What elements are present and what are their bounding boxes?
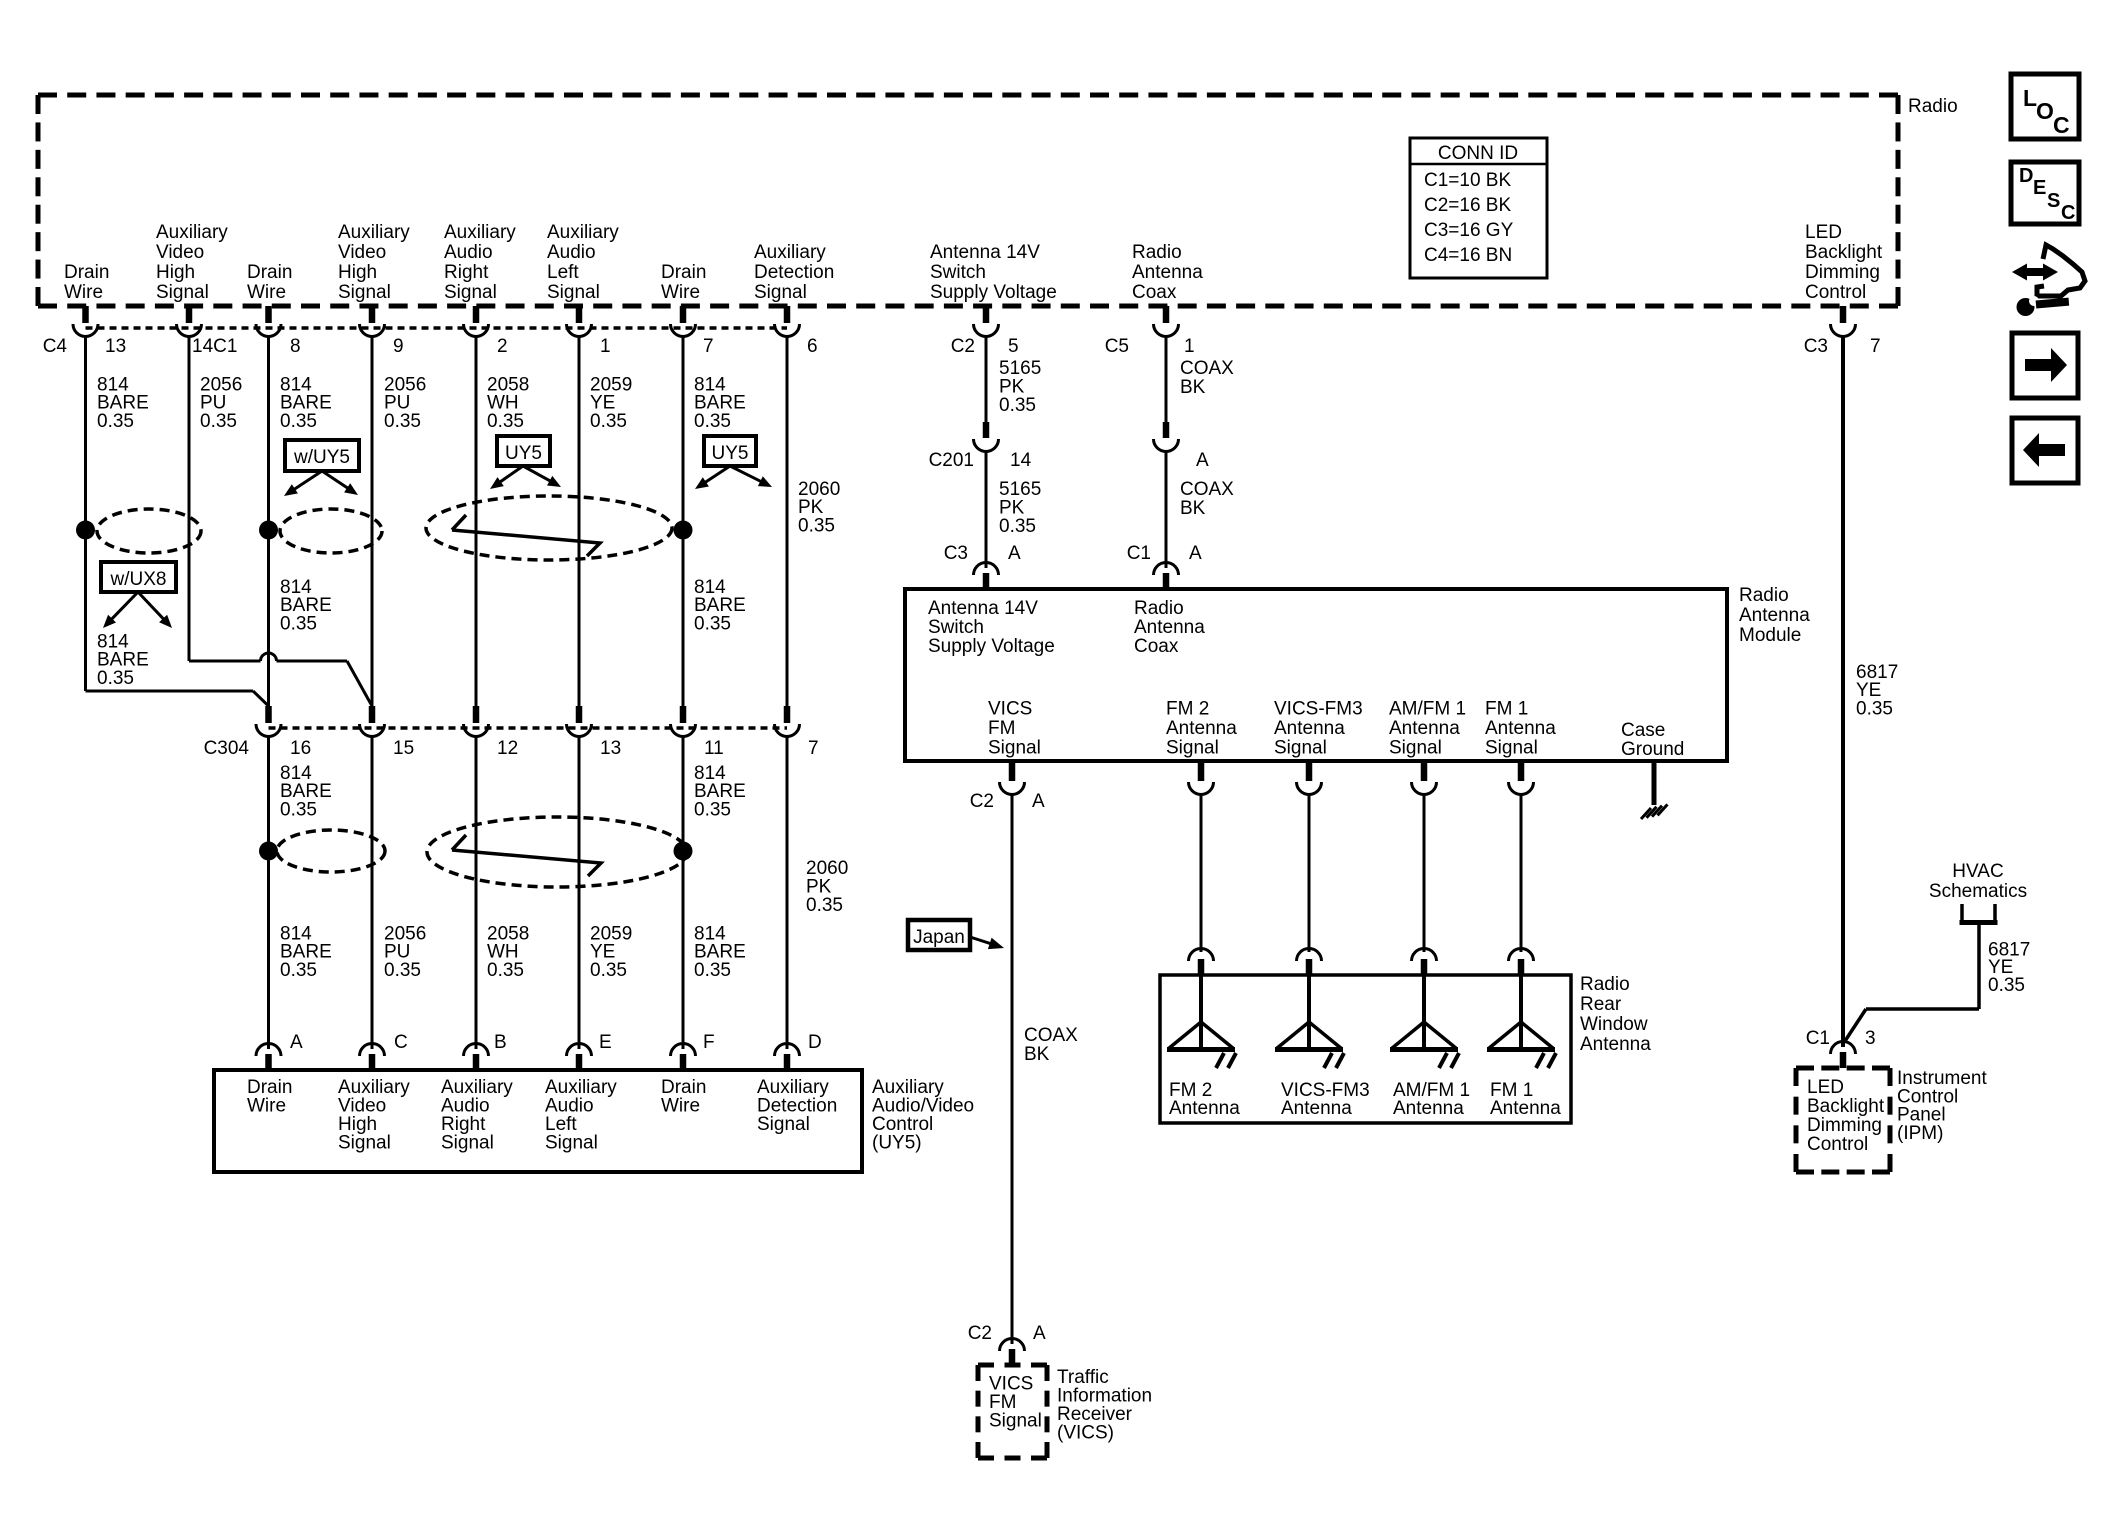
svg-text:COAX: COAX <box>1180 479 1234 500</box>
svg-text:Signal: Signal <box>1485 738 1538 759</box>
svg-text:5: 5 <box>1008 336 1019 357</box>
svg-text:7: 7 <box>703 336 714 357</box>
svg-text:Rear: Rear <box>1580 994 1622 1015</box>
svg-text:w/UY5: w/UY5 <box>293 447 350 468</box>
svg-text:C1: C1 <box>1127 543 1151 564</box>
svg-text:C: C <box>2053 112 2070 138</box>
svg-text:UY5: UY5 <box>505 443 542 464</box>
svg-text:VICS: VICS <box>988 699 1032 720</box>
svg-text:COAX: COAX <box>1024 1025 1078 1046</box>
svg-text:LED: LED <box>1805 222 1842 243</box>
svg-text:0.35: 0.35 <box>200 411 237 432</box>
svg-text:B: B <box>494 1032 507 1053</box>
svg-text:(VICS): (VICS) <box>1057 1423 1114 1444</box>
svg-text:VICS-FM3: VICS-FM3 <box>1274 699 1363 720</box>
svg-text:LED: LED <box>1807 1077 1844 1098</box>
svg-text:Antenna: Antenna <box>1166 718 1237 739</box>
svg-text:C2: C2 <box>970 791 994 812</box>
svg-text:Radio: Radio <box>1739 585 1789 606</box>
svg-text:A: A <box>1033 1323 1046 1344</box>
svg-text:A: A <box>290 1032 303 1053</box>
svg-text:C3: C3 <box>944 543 968 564</box>
svg-text:Antenna 14V: Antenna 14V <box>928 598 1038 619</box>
svg-text:8: 8 <box>290 336 301 357</box>
svg-text:Drain: Drain <box>247 262 292 283</box>
svg-text:0.35: 0.35 <box>694 800 731 821</box>
svg-text:Signal: Signal <box>338 1133 391 1154</box>
svg-text:A: A <box>1189 543 1202 564</box>
svg-text:0.35: 0.35 <box>806 895 843 916</box>
svg-text:D: D <box>2019 165 2033 187</box>
svg-text:Schematics: Schematics <box>1929 881 2027 902</box>
svg-text:C3: C3 <box>1804 336 1828 357</box>
svg-text:Wire: Wire <box>661 282 700 303</box>
svg-text:Antenna: Antenna <box>1393 1098 1464 1119</box>
svg-text:S: S <box>2047 190 2060 212</box>
svg-text:Signal: Signal <box>441 1133 494 1154</box>
svg-text:Control: Control <box>1805 282 1866 303</box>
svg-text:Video: Video <box>156 242 204 263</box>
svg-text:1: 1 <box>1184 336 1195 357</box>
svg-text:7: 7 <box>1870 336 1881 357</box>
svg-text:C2=16 BK: C2=16 BK <box>1424 195 1511 216</box>
svg-text:0.35: 0.35 <box>999 395 1036 416</box>
svg-text:C201: C201 <box>929 450 974 471</box>
svg-text:Signal: Signal <box>1274 738 1327 759</box>
svg-text:3: 3 <box>1865 1028 1876 1049</box>
svg-text:Antenna: Antenna <box>1485 718 1556 739</box>
svg-text:11: 11 <box>704 738 724 759</box>
svg-text:0.35: 0.35 <box>1856 699 1893 720</box>
svg-text:0.35: 0.35 <box>798 516 835 537</box>
svg-text:Supply Voltage: Supply Voltage <box>928 636 1055 657</box>
svg-text:BK: BK <box>1024 1044 1050 1065</box>
svg-text:Auxiliary: Auxiliary <box>338 222 410 243</box>
svg-text:A: A <box>1032 791 1045 812</box>
svg-text:0.35: 0.35 <box>590 960 627 981</box>
svg-text:C4=16 BN: C4=16 BN <box>1424 245 1512 266</box>
svg-text:Wire: Wire <box>247 1096 286 1117</box>
svg-text:Signal: Signal <box>545 1133 598 1154</box>
svg-text:C1=10 BK: C1=10 BK <box>1424 170 1511 191</box>
svg-text:15: 15 <box>393 738 414 759</box>
svg-text:Antenna: Antenna <box>1132 262 1203 283</box>
svg-text:12: 12 <box>497 738 518 759</box>
svg-text:0.35: 0.35 <box>1988 975 2025 996</box>
svg-text:FM: FM <box>988 718 1015 739</box>
svg-text:D: D <box>808 1032 822 1053</box>
svg-text:Signal: Signal <box>338 282 391 303</box>
svg-text:Japan: Japan <box>913 927 965 948</box>
svg-text:14C1: 14C1 <box>192 336 237 357</box>
svg-text:CONN ID: CONN ID <box>1438 143 1518 164</box>
svg-text:14: 14 <box>1010 450 1032 471</box>
svg-text:0.35: 0.35 <box>694 411 731 432</box>
svg-text:Wire: Wire <box>64 282 103 303</box>
svg-text:Signal: Signal <box>754 282 807 303</box>
svg-text:Signal: Signal <box>156 282 209 303</box>
svg-text:Signal: Signal <box>757 1114 810 1135</box>
svg-text:C304: C304 <box>204 738 250 759</box>
svg-text:Right: Right <box>444 262 489 283</box>
svg-text:FM 2: FM 2 <box>1166 699 1209 720</box>
svg-text:High: High <box>338 262 377 283</box>
svg-text:Switch: Switch <box>928 617 984 638</box>
svg-text:Radio: Radio <box>1134 598 1184 619</box>
svg-text:0.35: 0.35 <box>999 516 1036 537</box>
svg-text:L: L <box>2023 85 2037 111</box>
svg-text:Audio: Audio <box>547 242 596 263</box>
svg-text:1: 1 <box>600 336 611 357</box>
svg-text:0.35: 0.35 <box>280 411 317 432</box>
svg-text:16: 16 <box>290 738 311 759</box>
svg-text:Signal: Signal <box>1166 738 1219 759</box>
svg-text:E: E <box>599 1032 612 1053</box>
svg-text:0.35: 0.35 <box>590 411 627 432</box>
svg-text:0.35: 0.35 <box>487 960 524 981</box>
svg-text:Auxiliary: Auxiliary <box>156 222 228 243</box>
svg-text:7: 7 <box>808 738 819 759</box>
svg-text:C2: C2 <box>968 1323 992 1344</box>
svg-text:E: E <box>2033 177 2046 199</box>
svg-text:0.35: 0.35 <box>384 411 421 432</box>
svg-text:Signal: Signal <box>989 1411 1042 1432</box>
svg-text:(UY5): (UY5) <box>872 1133 922 1154</box>
svg-text:Radio: Radio <box>1908 96 1958 117</box>
svg-text:Wire: Wire <box>661 1096 700 1117</box>
svg-text:0.35: 0.35 <box>384 960 421 981</box>
svg-text:Antenna: Antenna <box>1580 1034 1651 1055</box>
svg-text:BK: BK <box>1180 498 1206 519</box>
svg-text:Backlight: Backlight <box>1805 242 1883 263</box>
svg-text:Antenna: Antenna <box>1274 718 1345 739</box>
svg-text:Ground: Ground <box>1621 739 1684 760</box>
svg-text:C: C <box>394 1032 408 1053</box>
svg-text:Signal: Signal <box>988 738 1041 759</box>
svg-text:O: O <box>2036 98 2054 124</box>
svg-text:C4: C4 <box>43 336 68 357</box>
svg-text:Audio: Audio <box>444 242 493 263</box>
svg-text:Dimming: Dimming <box>1807 1115 1882 1136</box>
svg-text:Signal: Signal <box>547 282 600 303</box>
svg-text:0.35: 0.35 <box>694 614 731 635</box>
svg-text:Video: Video <box>338 242 386 263</box>
svg-text:Left: Left <box>547 262 579 283</box>
svg-text:A: A <box>1196 450 1209 471</box>
svg-text:0.35: 0.35 <box>280 614 317 635</box>
svg-text:Antenna: Antenna <box>1169 1098 1240 1119</box>
svg-text:Auxiliary: Auxiliary <box>754 242 826 263</box>
svg-text:0.35: 0.35 <box>280 960 317 981</box>
svg-text:F: F <box>703 1032 715 1053</box>
svg-text:Antenna: Antenna <box>1134 617 1205 638</box>
svg-text:Wire: Wire <box>247 282 286 303</box>
svg-text:Antenna: Antenna <box>1389 718 1460 739</box>
svg-text:13: 13 <box>600 738 621 759</box>
svg-text:0.35: 0.35 <box>97 411 134 432</box>
svg-text:0.35: 0.35 <box>694 960 731 981</box>
svg-text:UY5: UY5 <box>712 443 749 464</box>
svg-text:BK: BK <box>1180 377 1206 398</box>
svg-text:C1: C1 <box>1806 1028 1830 1049</box>
svg-text:FM 1: FM 1 <box>1485 699 1528 720</box>
svg-text:A: A <box>1008 543 1021 564</box>
svg-text:AM/FM 1: AM/FM 1 <box>1389 699 1466 720</box>
svg-text:Window: Window <box>1580 1014 1648 1035</box>
svg-text:Radio: Radio <box>1132 242 1182 263</box>
svg-text:Supply Voltage: Supply Voltage <box>930 282 1057 303</box>
svg-text:Case: Case <box>1621 720 1665 741</box>
svg-text:13: 13 <box>105 336 126 357</box>
svg-text:2: 2 <box>497 336 508 357</box>
svg-text:0.35: 0.35 <box>280 800 317 821</box>
svg-text:Switch: Switch <box>930 262 986 283</box>
svg-text:Coax: Coax <box>1132 282 1177 303</box>
svg-text:Backlight: Backlight <box>1807 1096 1885 1117</box>
svg-text:Antenna: Antenna <box>1281 1098 1352 1119</box>
svg-text:Signal: Signal <box>444 282 497 303</box>
svg-text:Control: Control <box>1807 1134 1868 1155</box>
svg-text:Auxiliary: Auxiliary <box>547 222 619 243</box>
svg-text:Antenna: Antenna <box>1490 1098 1561 1119</box>
svg-text:Detection: Detection <box>754 262 834 283</box>
svg-text:C5: C5 <box>1105 336 1129 357</box>
svg-text:Antenna: Antenna <box>1739 605 1810 626</box>
svg-text:C: C <box>2061 202 2075 224</box>
svg-text:Signal: Signal <box>1389 738 1442 759</box>
svg-text:9: 9 <box>393 336 404 357</box>
svg-text:(IPM): (IPM) <box>1897 1123 1943 1144</box>
svg-text:Antenna 14V: Antenna 14V <box>930 242 1040 263</box>
svg-text:0.35: 0.35 <box>487 411 524 432</box>
svg-text:6: 6 <box>807 336 818 357</box>
svg-text:C2: C2 <box>951 336 975 357</box>
svg-text:Coax: Coax <box>1134 636 1179 657</box>
svg-text:Auxiliary: Auxiliary <box>444 222 516 243</box>
svg-text:COAX: COAX <box>1180 358 1234 379</box>
svg-text:Radio: Radio <box>1580 974 1630 995</box>
svg-text:Drain: Drain <box>64 262 109 283</box>
svg-text:Dimming: Dimming <box>1805 262 1880 283</box>
svg-text:Module: Module <box>1739 625 1801 646</box>
svg-text:Drain: Drain <box>661 262 706 283</box>
svg-text:C3=16 GY: C3=16 GY <box>1424 220 1514 241</box>
svg-text:0.35: 0.35 <box>97 668 134 689</box>
svg-text:w/UX8: w/UX8 <box>110 569 167 590</box>
svg-text:HVAC: HVAC <box>1952 861 2003 882</box>
svg-text:High: High <box>156 262 195 283</box>
